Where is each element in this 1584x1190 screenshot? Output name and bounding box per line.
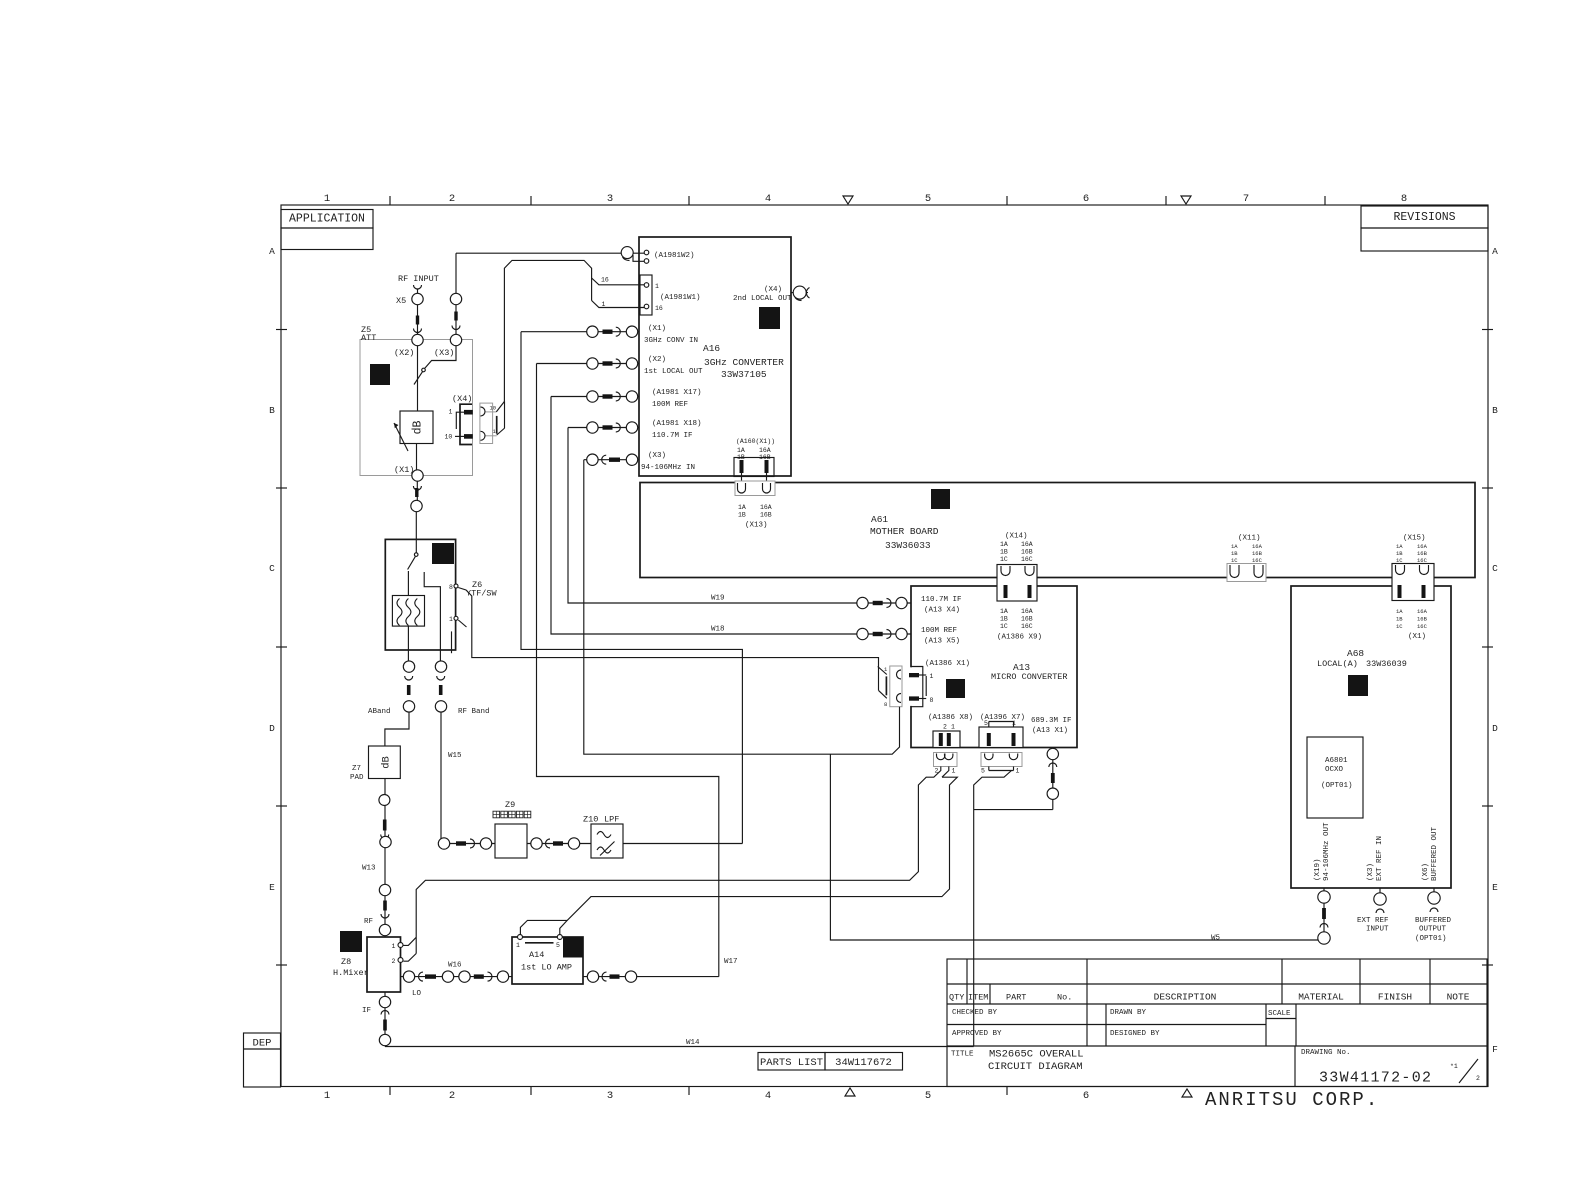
svg-text:2: 2	[449, 1090, 455, 1102]
Z5 connector X3	[450, 334, 461, 345]
svg-text:(A13 X5): (A13 X5)	[924, 638, 960, 646]
svg-text:B: B	[269, 405, 275, 416]
svg-text:APPROVED BY: APPROVED BY	[952, 1030, 1002, 1038]
svg-text:(A1981 X17): (A1981 X17)	[652, 389, 702, 397]
svg-text:33W41172-02: 33W41172-02	[1319, 1070, 1432, 1087]
wire X4 to A1981W1 pin16 (1)	[592, 301, 644, 308]
connector pair Z9 to Z10	[531, 838, 580, 849]
svg-text:16A: 16A	[759, 447, 771, 454]
svg-text:QTY: QTY	[949, 993, 964, 1003]
svg-text:1C: 1C	[1396, 623, 1403, 630]
revision triangle marks top	[843, 196, 853, 204]
svg-text:MICRO CONVERTER: MICRO CONVERTER	[991, 672, 1068, 682]
svg-text:dB: dB	[381, 756, 393, 769]
svg-text:4: 4	[765, 193, 771, 205]
svg-text:(A1386 X8): (A1386 X8)	[928, 714, 973, 722]
A68 ident square	[1348, 675, 1368, 696]
svg-text:8: 8	[1401, 193, 1407, 205]
connector pair W2 input	[450, 293, 461, 329]
svg-text:100M REF: 100M REF	[652, 401, 688, 409]
connector pair W15 to Z9	[438, 838, 491, 849]
svg-text:BUFFERED OUT: BUFFERED OUT	[1431, 826, 1439, 881]
svg-text:MOTHER BOARD: MOTHER BOARD	[870, 526, 939, 537]
svg-text:OCXO: OCXO	[1325, 766, 1344, 774]
svg-text:16A: 16A	[1021, 608, 1033, 615]
wire A1396 X7 jumper	[988, 767, 990, 771]
svg-text:110.7M IF: 110.7M IF	[921, 596, 962, 604]
svg-text:100M REF: 100M REF	[921, 627, 957, 635]
wire Z8 pin1 lead	[403, 937, 416, 945]
svg-text:8: 8	[884, 701, 887, 708]
connector BUFFERED OUTPUT	[1415, 888, 1452, 943]
A13 ident square	[946, 679, 965, 698]
A14 pin 5	[557, 935, 562, 940]
svg-text:EXT REF: EXT REF	[1357, 917, 1389, 925]
wire Z5 to Z6	[415, 512, 417, 554]
RF INPUT open connector	[414, 285, 422, 289]
svg-text:(A1981W2): (A1981W2)	[654, 252, 695, 260]
svg-text:H.Mixer: H.Mixer	[333, 968, 369, 978]
A6801 OCXO (OPT01)	[1307, 737, 1363, 818]
connector pair W19 to A13	[857, 602, 911, 604]
svg-text:16B: 16B	[760, 512, 772, 519]
svg-text:8: 8	[449, 584, 453, 591]
svg-text:(A1386 X9): (A1386 X9)	[997, 634, 1042, 642]
svg-text:10: 10	[490, 405, 497, 412]
svg-text:16B: 16B	[1021, 616, 1033, 623]
grid row letters right	[1492, 246, 1498, 1055]
svg-text:Z8: Z8	[341, 957, 351, 967]
A61 ident square	[931, 489, 950, 509]
Z8 pin 1	[398, 943, 403, 948]
svg-text:PARTS LIST: PARTS LIST	[760, 1057, 823, 1069]
svg-text:2: 2	[1476, 1075, 1480, 1082]
svg-text:IF: IF	[362, 1007, 371, 1015]
svg-text:2: 2	[449, 193, 455, 205]
wire W5 net (to A68 X19)	[830, 754, 1318, 940]
svg-text:D: D	[1492, 723, 1498, 734]
connector X11 (mother board bottom)	[1227, 535, 1266, 582]
svg-text:(X11): (X11)	[1238, 535, 1261, 543]
svg-text:1A: 1A	[1396, 608, 1403, 615]
wire A1386 X8 pin2 to Z8 pin1	[416, 767, 941, 954]
svg-text:(X15): (X15)	[1403, 535, 1426, 543]
svg-text:1B: 1B	[1231, 550, 1238, 557]
svg-text:ATT: ATT	[361, 333, 376, 343]
wire W19 net (A16 X18 to A13 X4)	[568, 428, 857, 604]
svg-text:1: 1	[449, 616, 453, 623]
svg-text:(A1386 X1): (A1386 X1)	[925, 660, 970, 668]
svg-text:16A: 16A	[1021, 541, 1033, 548]
svg-text:ANRITSU CORP.: ANRITSU CORP.	[1205, 1089, 1379, 1111]
svg-text:(X4): (X4)	[764, 286, 782, 294]
svg-text:1B: 1B	[1000, 616, 1008, 623]
svg-text:1C: 1C	[1231, 557, 1238, 564]
svg-text:TITLE: TITLE	[951, 1051, 974, 1059]
svg-text:1A: 1A	[1396, 543, 1403, 550]
wire Z9 row	[441, 843, 495, 845]
connector pair A14 output	[587, 971, 636, 982]
A16 port chain A1981 X17 100M ref	[551, 391, 639, 402]
connector pair W18 to A13	[857, 633, 911, 635]
Z5 through wire X2 to attenuator	[417, 346, 419, 411]
svg-text:B: B	[1492, 405, 1498, 416]
DEP box	[244, 1033, 281, 1087]
svg-text:16A: 16A	[1252, 543, 1263, 550]
connector pair below Z5	[411, 481, 422, 512]
svg-text:1C: 1C	[1000, 556, 1008, 563]
A16 2nd LOCAL OUT connector X4	[791, 286, 810, 300]
svg-text:1: 1	[930, 673, 934, 680]
svg-text:(X13): (X13)	[745, 522, 768, 530]
svg-text:RF Band: RF Band	[458, 708, 490, 716]
svg-text:1: 1	[392, 943, 396, 950]
svg-text:(A1981W1): (A1981W1)	[660, 294, 701, 302]
svg-text:16B: 16B	[1417, 550, 1428, 557]
svg-text:1: 1	[602, 301, 606, 308]
wire A1386 X8 pin1 to A14 pins	[942, 767, 949, 778]
svg-text:2nd LOCAL OUT: 2nd LOCAL OUT	[733, 295, 792, 303]
wire W14 vertical to A1396 X7	[974, 771, 1012, 1047]
pad Z7 dB box	[350, 746, 400, 782]
svg-text:6: 6	[1083, 193, 1089, 205]
amplifier A14 1st LO AMP	[512, 937, 583, 984]
svg-text:No.: No.	[1057, 993, 1072, 1003]
svg-text:1B: 1B	[1000, 549, 1008, 556]
Z5 connector X1	[412, 470, 423, 481]
svg-text:W19: W19	[711, 595, 725, 603]
A14 internal link bar	[525, 942, 554, 944]
wire W14 (Z8 IF to A1396 X7)	[385, 1046, 974, 1048]
wire 94-106MHz net (A16 X3 down)	[584, 460, 900, 755]
svg-text:1: 1	[516, 942, 520, 949]
grid ticks top border	[390, 196, 1325, 205]
svg-text:(A1981 X18): (A1981 X18)	[652, 420, 702, 428]
svg-text:BUFFERED: BUFFERED	[1415, 917, 1452, 925]
wire attenuator to X1	[416, 444, 418, 471]
svg-text:4: 4	[765, 1090, 771, 1102]
grid column numbers top	[324, 193, 1407, 205]
wire 689.3M IF coax link	[974, 809, 1053, 811]
connector A1981W2 big circle	[621, 247, 633, 259]
grid ticks bottom border	[390, 1087, 1007, 1096]
svg-text:SCALE: SCALE	[1268, 1010, 1291, 1018]
drawing border frame	[281, 205, 1488, 1087]
A1386 X8 mating connector	[934, 753, 958, 775]
svg-text:DEP: DEP	[253, 1038, 272, 1050]
A16 port chain A1981 X18 110.7M IF	[568, 422, 639, 433]
svg-text:Z9: Z9	[505, 800, 515, 810]
wire Z7 to W13 chain	[384, 779, 386, 938]
svg-text:1A: 1A	[737, 447, 745, 454]
svg-text:5: 5	[925, 1090, 931, 1102]
svg-text:16C: 16C	[1021, 623, 1033, 630]
connector EXT REF INPUT	[1357, 888, 1389, 934]
wire ABand to Z7	[385, 712, 409, 746]
connector pair ABand	[403, 661, 414, 712]
svg-text:1st LOCAL OUT: 1st LOCAL OUT	[644, 368, 703, 376]
svg-text:RF INPUT: RF INPUT	[398, 274, 439, 284]
svg-text:REVISIONS: REVISIONS	[1393, 211, 1455, 224]
svg-text:16A: 16A	[760, 504, 772, 511]
A16 connector A1981W1 edge box	[640, 275, 652, 315]
svg-text:16A: 16A	[1417, 608, 1428, 615]
wire A14 output	[583, 976, 719, 978]
A16 bottom connector A160(X1)	[734, 438, 775, 477]
wire W18 net (A16 X17 to A13 X5)	[551, 397, 857, 635]
svg-text:W18: W18	[711, 626, 725, 634]
svg-text:W13: W13	[362, 865, 376, 873]
wire A1981W2 horizontal	[456, 252, 644, 254]
svg-text:(A13 X4): (A13 X4)	[924, 607, 960, 615]
svg-text:C: C	[269, 563, 275, 574]
svg-text:1B: 1B	[738, 512, 746, 519]
title block header texts	[949, 992, 1470, 1003]
connector X13 (A16 to mother board)	[735, 473, 775, 530]
Z8 pin 2	[398, 958, 403, 963]
svg-text:16C: 16C	[1252, 557, 1263, 564]
svg-text:(X2): (X2)	[394, 348, 414, 358]
svg-text:DESIGNED BY: DESIGNED BY	[1110, 1030, 1160, 1038]
module A61 MOTHER BOARD 33W36033	[640, 483, 1475, 578]
A1396 X7 mating connector	[981, 753, 1022, 775]
A1981W2 pin circles	[644, 250, 649, 255]
svg-text:dB: dB	[412, 421, 425, 435]
A14 ident square	[563, 937, 583, 958]
A1386 X1 mating connector (3D)	[878, 666, 902, 708]
svg-text:1A: 1A	[1000, 608, 1008, 615]
svg-text:A: A	[1492, 246, 1498, 257]
Z5 switch	[414, 346, 456, 385]
wire A1981W2 input column	[455, 253, 457, 339]
svg-text:16B: 16B	[1021, 549, 1033, 556]
svg-text:(X3): (X3)	[434, 348, 454, 358]
svg-text:5: 5	[984, 720, 988, 727]
svg-text:1A: 1A	[1231, 543, 1238, 550]
A1981W1 pin circles	[644, 283, 649, 288]
module A13 MICRO CONVERTER	[911, 586, 1077, 748]
svg-text:X5: X5	[396, 296, 406, 306]
A14 pin 1	[518, 935, 523, 940]
svg-text:E: E	[269, 882, 275, 893]
svg-text:A: A	[269, 246, 275, 257]
Z6 YTF filter box	[392, 596, 424, 627]
svg-text:94-106MHz IN: 94-106MHz IN	[641, 464, 695, 472]
Z6 input switch	[408, 553, 418, 570]
sheet fraction mark	[1450, 1059, 1480, 1083]
svg-text:Z10: Z10	[583, 815, 598, 825]
svg-text:1: 1	[655, 283, 659, 290]
absorber Z9 box	[493, 800, 531, 858]
svg-text:1C: 1C	[1000, 623, 1008, 630]
wire LO chain	[401, 976, 513, 978]
svg-text:PART: PART	[1006, 993, 1026, 1003]
svg-text:MS2665C OVERALL: MS2665C OVERALL	[989, 1049, 1084, 1061]
svg-text:W5: W5	[1211, 935, 1221, 943]
module A16 3GHz CONVERTER 33W37105	[639, 237, 791, 476]
svg-text:(X3): (X3)	[648, 452, 666, 460]
svg-text:DRAWING No.: DRAWING No.	[1301, 1049, 1351, 1057]
svg-text:5: 5	[556, 942, 560, 949]
connector pair Z8 IF output	[384, 992, 386, 1047]
Z6 ABand path wire	[407, 571, 409, 596]
svg-text:2: 2	[943, 724, 947, 731]
svg-text:ABand: ABand	[368, 708, 391, 716]
svg-text:(X6): (X6)	[1422, 863, 1430, 881]
Z6 pin1 stub	[451, 631, 453, 653]
svg-text:16A: 16A	[1417, 543, 1428, 550]
svg-text:10: 10	[445, 434, 453, 441]
svg-text:F: F	[1492, 1044, 1498, 1055]
connector pair X5	[396, 293, 423, 332]
svg-text:33W36039: 33W36039	[1366, 659, 1407, 669]
PARTS LIST box	[758, 1053, 903, 1071]
svg-text:3: 3	[607, 1090, 613, 1102]
svg-text:W15: W15	[448, 752, 462, 760]
svg-text:W17: W17	[724, 958, 738, 966]
title text	[951, 1049, 1084, 1074]
Z5 connector X4 box	[445, 394, 473, 445]
attenuator Z5 ATT outline	[360, 340, 473, 476]
svg-text:1: 1	[449, 409, 453, 416]
svg-text:DESCRIPTION: DESCRIPTION	[1154, 992, 1217, 1003]
svg-text:16: 16	[601, 277, 609, 284]
connector X15 / X1 (mother board to A68)	[1392, 535, 1434, 642]
title block table	[947, 959, 1487, 1087]
svg-text:OUTPUT: OUTPUT	[1419, 926, 1447, 934]
svg-text:94-106MHz OUT: 94-106MHz OUT	[1323, 822, 1331, 881]
svg-text:A61: A61	[871, 514, 888, 525]
filter Z10 LPF	[583, 815, 623, 859]
wire 3GHz conv in loop (A16 X1 to Z10 LPF)	[521, 332, 742, 844]
grid column numbers bottom	[324, 1090, 1089, 1102]
svg-text:6: 6	[1083, 1090, 1089, 1102]
svg-text:7: 7	[1243, 193, 1249, 205]
svg-text:APPLICATION: APPLICATION	[289, 213, 365, 226]
Z5 ident square	[370, 364, 390, 385]
svg-text:1B: 1B	[1396, 550, 1403, 557]
connector pair below Z7	[379, 795, 391, 848]
Z5 connector X2	[412, 334, 423, 345]
svg-text:DRAWN BY: DRAWN BY	[1110, 1009, 1147, 1017]
svg-text:(X1): (X1)	[1408, 633, 1426, 641]
svg-text:8: 8	[930, 697, 934, 704]
switch filter Z6 YTF/SW	[385, 539, 455, 650]
svg-text:E: E	[1492, 882, 1498, 893]
svg-text:1B: 1B	[1396, 616, 1403, 623]
svg-text:3: 3	[607, 193, 613, 205]
svg-text:INPUT: INPUT	[1366, 926, 1389, 934]
svg-text:1st LO AMP: 1st LO AMP	[521, 963, 572, 973]
A13 bottom connector A1396 X7	[979, 720, 1023, 748]
svg-text:PAD: PAD	[350, 774, 364, 782]
svg-text:LPF: LPF	[604, 815, 619, 825]
svg-text:CIRCUIT DIAGRAM: CIRCUIT DIAGRAM	[988, 1061, 1083, 1073]
svg-text:1A: 1A	[1000, 541, 1008, 548]
svg-text:(A160(X1)): (A160(X1))	[736, 438, 775, 445]
svg-text:16: 16	[655, 305, 663, 312]
svg-text:Z7: Z7	[352, 765, 361, 773]
grid ticks right border	[1482, 330, 1493, 966]
svg-text:CHECKED BY: CHECKED BY	[952, 1009, 998, 1017]
module A68 LOCAL(A) 33W36039	[1291, 586, 1451, 888]
svg-text:(X3): (X3)	[1367, 863, 1375, 881]
Z6 pin 1	[449, 616, 467, 627]
svg-text:EXT REF IN: EXT REF IN	[1376, 836, 1384, 881]
title block sign-off texts	[952, 1009, 1291, 1038]
svg-text:(OPT01): (OPT01)	[1415, 935, 1447, 943]
connector pair 689.3M IF	[1047, 748, 1058, 799]
A13 bottom connector A1386 X8	[933, 724, 960, 748]
revision triangle marks bottom	[845, 1088, 855, 1096]
svg-text:1: 1	[324, 1090, 330, 1102]
svg-text:689.3M IF: 689.3M IF	[1031, 717, 1072, 725]
svg-text:5: 5	[981, 768, 985, 775]
X4 mating connector (3D)	[480, 402, 505, 444]
drawing number	[1301, 1049, 1432, 1087]
A16 port chain X2 1st local out	[537, 358, 640, 369]
connector pair RF Band	[435, 661, 446, 712]
Z6 pin 8	[449, 584, 458, 591]
svg-text:16C: 16C	[1417, 623, 1428, 630]
grid row letters left	[269, 246, 275, 1055]
svg-text:(X1): (X1)	[648, 325, 666, 333]
wire Z6 pin8 to A1386 X1	[458, 588, 878, 667]
svg-text:(OPT01): (OPT01)	[1321, 782, 1353, 790]
connector X14 / A1386 X9 (mother board to A13)	[997, 533, 1042, 642]
svg-text:(A13 X1): (A13 X1)	[1032, 727, 1068, 735]
svg-text:C: C	[1492, 563, 1498, 574]
wire A14 pin5 branch	[560, 920, 567, 934]
svg-text:NOTE: NOTE	[1447, 992, 1470, 1003]
svg-text:33W36033: 33W36033	[885, 540, 931, 551]
svg-text:MATERIAL: MATERIAL	[1298, 992, 1344, 1003]
svg-text:LOCAL(A): LOCAL(A)	[1317, 659, 1358, 669]
connector pair A68 X19 output	[1323, 888, 1325, 938]
svg-text:1: 1	[952, 768, 956, 775]
Z6 RF bypass path wire	[424, 572, 440, 661]
wire X4 to A1981W1 pin1 (16)	[504, 260, 591, 401]
svg-text:(X2): (X2)	[648, 356, 666, 364]
svg-text:(X19): (X19)	[1314, 858, 1322, 881]
svg-text:D: D	[269, 723, 275, 734]
A16 port labels	[641, 252, 792, 472]
svg-text:3GHz CONV IN: 3GHz CONV IN	[644, 337, 698, 345]
svg-text:1: 1	[324, 193, 330, 205]
svg-text:16C: 16C	[1021, 556, 1033, 563]
svg-text:1: 1	[951, 724, 955, 731]
svg-text:34W117672: 34W117672	[835, 1057, 892, 1069]
Z5 dB attenuator box	[400, 411, 433, 444]
svg-text:2: 2	[392, 958, 396, 965]
Z8 ident square	[340, 931, 362, 952]
svg-text:W16: W16	[448, 962, 462, 970]
svg-text:16B: 16B	[1417, 616, 1428, 623]
A16 port chain X1 3GHz conv in	[521, 326, 639, 337]
svg-text:A6801: A6801	[1325, 757, 1348, 765]
svg-text:33W37105: 33W37105	[721, 369, 767, 380]
grid ticks left border	[276, 330, 287, 966]
svg-text:*1: *1	[1450, 1063, 1458, 1070]
wire W15 (RF Band to Z9)	[440, 712, 442, 843]
svg-text:RF: RF	[364, 918, 373, 926]
svg-text:LO: LO	[412, 990, 422, 998]
A68 rotated port labels	[1314, 822, 1439, 881]
svg-text:A68: A68	[1347, 648, 1364, 659]
A16 port chain X3 94-106MHz in	[584, 454, 639, 465]
svg-text:YTF/SW: YTF/SW	[466, 589, 498, 599]
svg-text:A14: A14	[529, 950, 544, 960]
